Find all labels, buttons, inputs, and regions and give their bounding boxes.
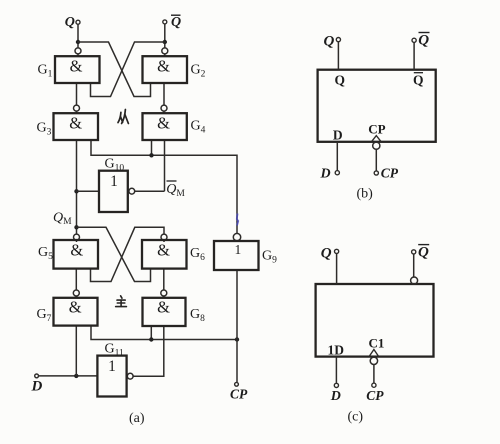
svg-text:&: & (70, 56, 83, 75)
svg-text:1D: 1D (328, 342, 345, 357)
svg-text:&: & (157, 240, 170, 259)
svg-text:CP: CP (366, 388, 384, 403)
svg-text:&: & (157, 113, 170, 132)
svg-text:Q: Q (335, 73, 346, 88)
svg-text:C1: C1 (368, 335, 384, 350)
svg-text:(a): (a) (129, 411, 145, 426)
svg-text:CP: CP (230, 387, 248, 402)
svg-text:(b): (b) (357, 186, 374, 201)
svg-text:&: & (70, 240, 83, 259)
svg-text:D: D (333, 127, 343, 142)
svg-text:D: D (320, 167, 331, 182)
svg-text:&: & (69, 113, 82, 132)
svg-text:D: D (31, 379, 43, 395)
svg-text:Q: Q (413, 73, 424, 88)
svg-text:1: 1 (110, 173, 118, 190)
svg-text:CP: CP (368, 121, 385, 136)
svg-text:Q: Q (418, 245, 429, 261)
svg-text:Q: Q (324, 34, 335, 50)
svg-text:(c): (c) (348, 410, 364, 425)
svg-text:Q: Q (321, 246, 332, 262)
svg-text:&: & (157, 56, 170, 75)
svg-text:1: 1 (108, 358, 116, 375)
svg-text:D: D (330, 389, 341, 404)
svg-text:&: & (157, 297, 170, 316)
svg-text:1: 1 (235, 242, 242, 257)
svg-text:CP: CP (381, 166, 399, 181)
svg-text:Q: Q (418, 33, 429, 49)
svg-text:Q: Q (65, 15, 75, 30)
svg-text:&: & (69, 297, 82, 316)
svg-text:Q: Q (171, 15, 181, 30)
